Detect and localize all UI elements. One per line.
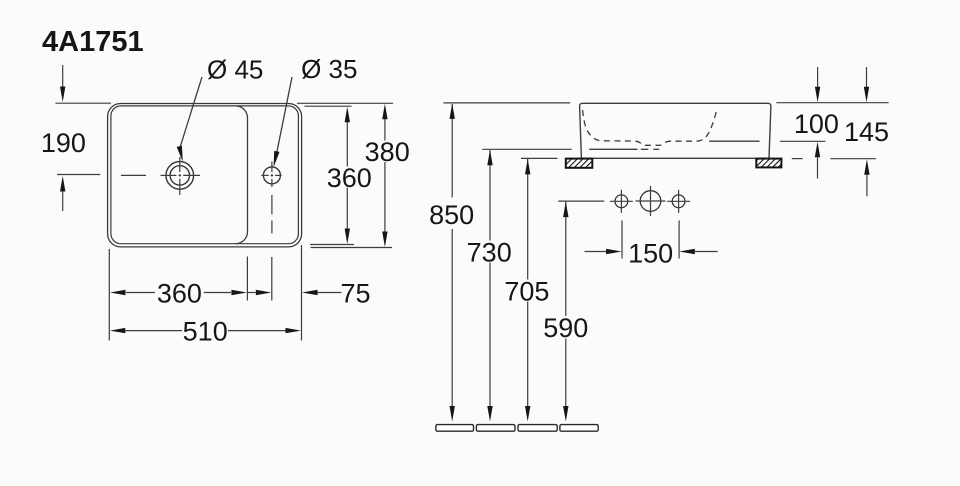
tap hole D35 — [263, 167, 280, 184]
dim 100 — [817, 67, 819, 87]
svg-text:150: 150 — [628, 239, 673, 269]
svg-text:Ø 35: Ø 35 — [301, 54, 357, 84]
svg-text:850: 850 — [429, 200, 474, 230]
D35 centerlines — [261, 162, 281, 234]
bowl right edge — [236, 106, 248, 244]
svg-text:4A1751: 4A1751 — [42, 26, 144, 58]
dim 190 — [56, 65, 112, 211]
leader D35 — [277, 77, 292, 153]
svg-text:705: 705 — [504, 276, 549, 306]
bottom recess edge — [589, 148, 637, 150]
dim 510 — [126, 330, 183, 332]
counter dash right — [792, 158, 803, 160]
deck edge — [709, 140, 759, 142]
dim 100 145 top ext — [776, 102, 888, 104]
faucet hole D45 — [166, 162, 194, 190]
svg-text:Ø 45: Ø 45 — [207, 54, 263, 84]
dim 850 — [443, 102, 570, 104]
hidden bowl profile — [583, 109, 717, 146]
leader D45 — [180, 77, 202, 148]
dim 360 horizontal — [126, 292, 155, 294]
hole ext lines — [621, 220, 623, 258]
ext lines below top view — [109, 245, 301, 341]
svg-text:590: 590 — [543, 313, 588, 343]
D45 centerlines — [121, 157, 200, 195]
dim 590 — [558, 200, 604, 202]
basin body — [580, 103, 771, 158]
svg-text:75: 75 — [340, 278, 370, 308]
svg-text:100: 100 — [794, 109, 839, 139]
dim 150 — [585, 251, 607, 253]
dim 380 (right of top view) — [297, 103, 393, 247]
mounting pad right — [756, 159, 781, 168]
dim 360 vertical — [304, 106, 354, 244]
dim 75 — [247, 292, 255, 294]
dim 730 — [482, 148, 572, 150]
mounting pad left — [566, 159, 593, 168]
dim 705 — [527, 159, 529, 280]
svg-text:190: 190 — [41, 128, 86, 158]
svg-text:510: 510 — [183, 316, 228, 346]
svg-text:730: 730 — [467, 237, 512, 267]
basin inner rim — [111, 106, 299, 244]
svg-text:360: 360 — [327, 163, 372, 193]
floor strips — [436, 425, 598, 432]
tap holes side view — [615, 195, 628, 208]
svg-text:360: 360 — [157, 278, 202, 308]
dim 145 — [866, 67, 868, 87]
svg-text:145: 145 — [844, 117, 889, 147]
counter line left / 705 ext — [521, 157, 558, 159]
basin outer rim — [108, 104, 302, 247]
